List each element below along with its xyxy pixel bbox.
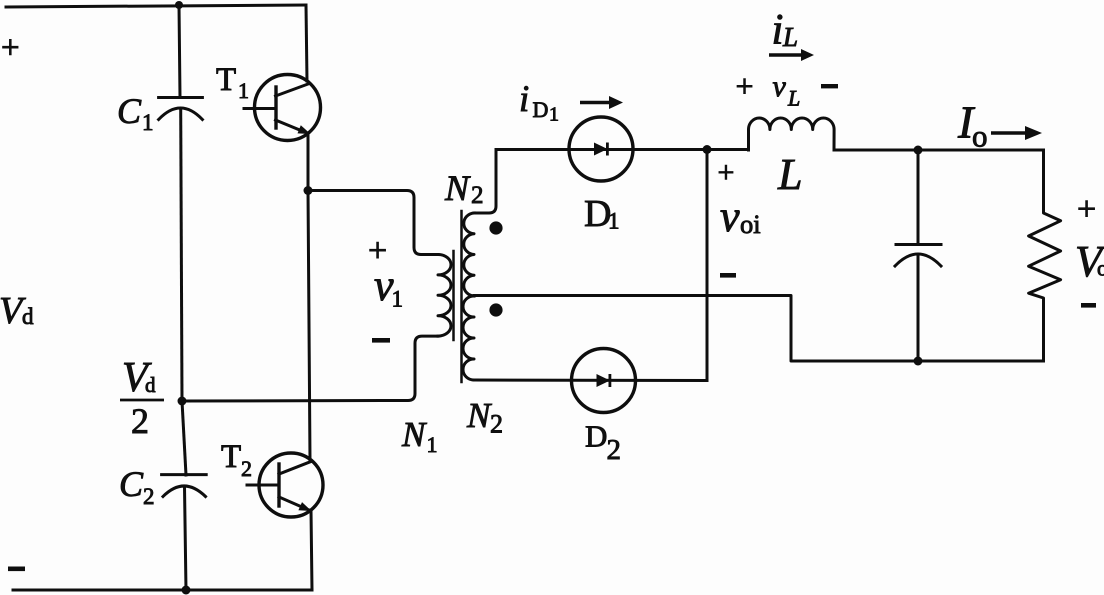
svg-text:+: + bbox=[1077, 191, 1096, 228]
svg-text:C: C bbox=[117, 91, 142, 131]
svg-text:1: 1 bbox=[427, 432, 438, 457]
svg-text:2: 2 bbox=[143, 484, 155, 509]
svg-text:i: i bbox=[772, 7, 784, 54]
svg-text:L: L bbox=[787, 86, 800, 111]
svg-text:L: L bbox=[782, 22, 798, 52]
svg-text:1: 1 bbox=[392, 287, 404, 312]
svg-text:2: 2 bbox=[241, 456, 252, 481]
svg-text:+: + bbox=[736, 68, 754, 104]
svg-text:2: 2 bbox=[490, 410, 503, 439]
svg-text:L: L bbox=[777, 150, 802, 199]
svg-text:N: N bbox=[466, 396, 492, 435]
svg-text:1: 1 bbox=[549, 104, 559, 126]
svg-text:T: T bbox=[221, 439, 241, 475]
svg-text:oi: oi bbox=[740, 209, 761, 239]
svg-text:o: o bbox=[1097, 256, 1104, 281]
svg-text:D: D bbox=[585, 419, 607, 454]
svg-text:D: D bbox=[533, 97, 549, 122]
svg-text:o: o bbox=[972, 119, 988, 154]
svg-text:2: 2 bbox=[131, 401, 149, 441]
svg-text:d: d bbox=[22, 304, 34, 329]
svg-text:i: i bbox=[519, 79, 529, 120]
svg-text:1: 1 bbox=[608, 209, 620, 234]
svg-text:N: N bbox=[444, 168, 471, 208]
svg-text:+: + bbox=[1, 30, 20, 66]
svg-text:v: v bbox=[773, 70, 787, 103]
svg-text:v: v bbox=[720, 192, 740, 241]
svg-text:T: T bbox=[216, 62, 236, 98]
svg-text:+: + bbox=[718, 156, 735, 189]
svg-text:1: 1 bbox=[142, 110, 154, 135]
svg-text:C: C bbox=[119, 464, 144, 504]
svg-text:N: N bbox=[401, 415, 427, 454]
svg-text:2: 2 bbox=[471, 182, 484, 209]
svg-text:1: 1 bbox=[238, 78, 249, 103]
svg-text:d: d bbox=[145, 373, 156, 397]
svg-text:2: 2 bbox=[607, 434, 622, 466]
